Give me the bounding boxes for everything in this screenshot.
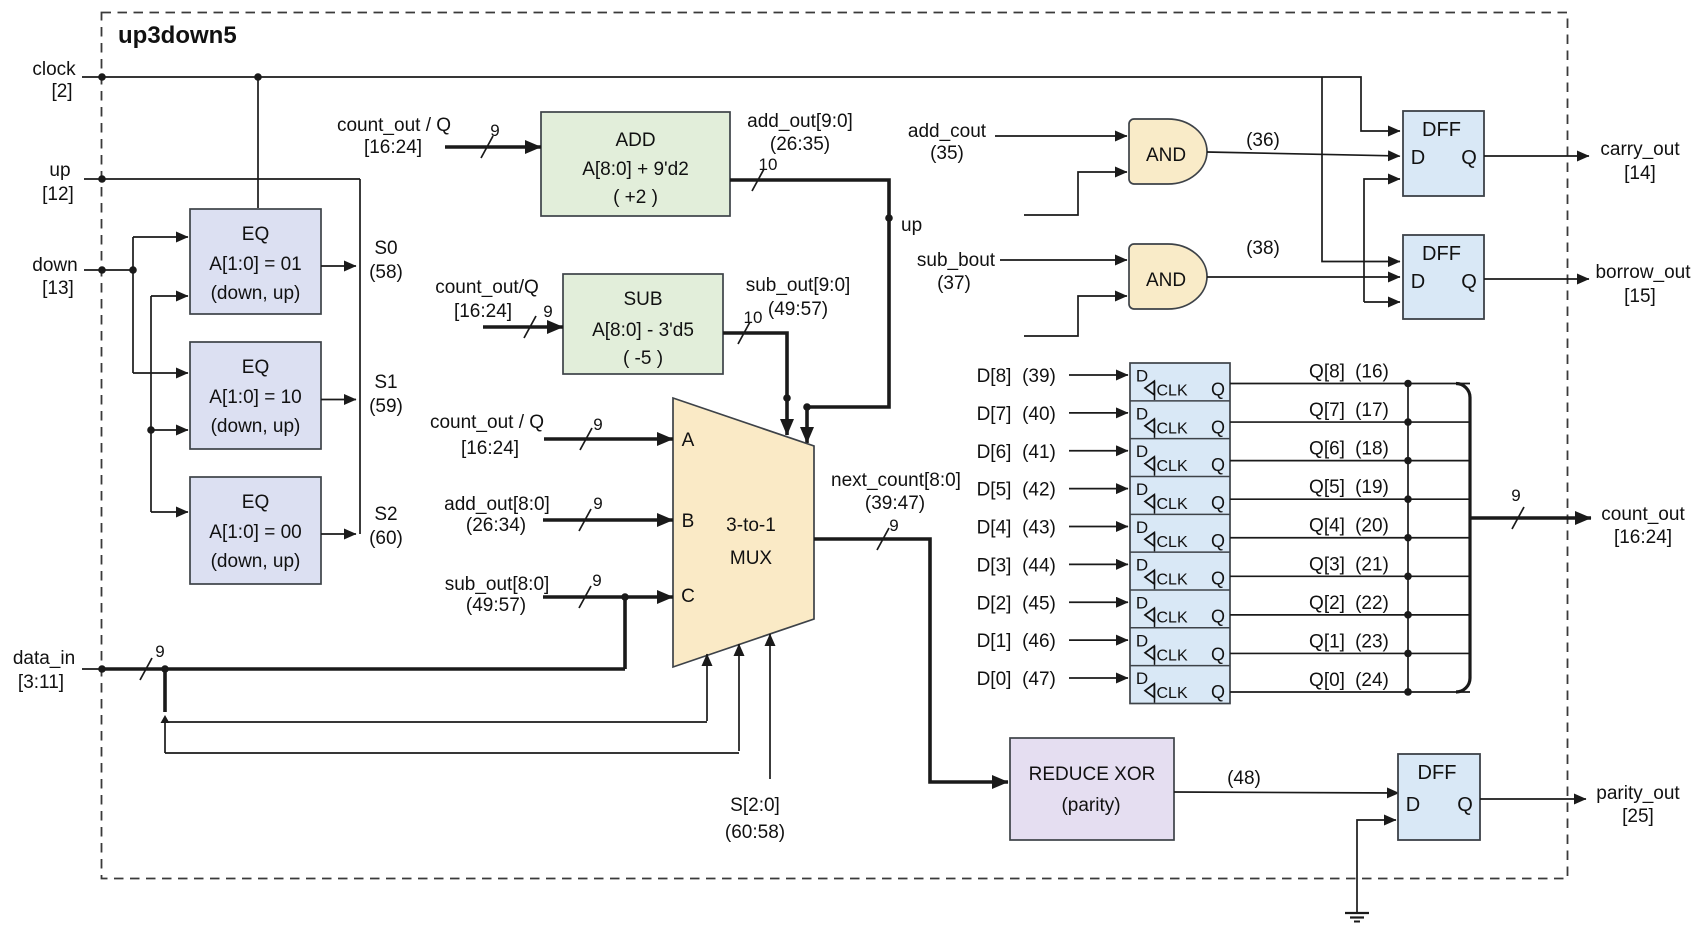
- svg-text:9: 9: [593, 494, 602, 513]
- svg-text:EQ: EQ: [242, 357, 269, 378]
- svg-text:A[1:0] = 01: A[1:0] = 01: [209, 254, 301, 275]
- svg-text:EQ: EQ: [242, 492, 269, 513]
- svg-text:add_out[9:0]: add_out[9:0]: [747, 111, 853, 132]
- svg-text:[16:24]: [16:24]: [461, 438, 519, 459]
- svg-text:(47): (47): [1022, 669, 1056, 690]
- svg-text:Q[7]: Q[7]: [1309, 400, 1345, 421]
- svg-text:Q: Q: [1211, 644, 1225, 664]
- svg-text:(35): (35): [930, 143, 964, 164]
- svg-text:sub_bout: sub_bout: [917, 250, 996, 271]
- svg-text:Q[0]: Q[0]: [1309, 670, 1345, 691]
- svg-text:Q: Q: [1211, 606, 1225, 626]
- svg-text:Q: Q: [1461, 147, 1477, 169]
- svg-text:(44): (44): [1022, 555, 1056, 576]
- svg-text:A[1:0] = 00: A[1:0] = 00: [209, 522, 301, 543]
- svg-text:D: D: [1136, 442, 1148, 461]
- svg-text:add_out[8:0]: add_out[8:0]: [444, 494, 550, 515]
- svg-text:Q[5]: Q[5]: [1309, 477, 1345, 498]
- svg-text:9: 9: [1511, 486, 1520, 505]
- svg-text:3-to-1: 3-to-1: [726, 515, 776, 536]
- svg-text:[16:24]: [16:24]: [454, 301, 512, 322]
- svg-text:(26:35): (26:35): [770, 134, 830, 155]
- svg-text:D: D: [1136, 593, 1148, 612]
- svg-text:(down, up): (down, up): [211, 283, 301, 304]
- svg-text:D: D: [1411, 271, 1425, 293]
- svg-text:D: D: [1411, 147, 1425, 169]
- svg-text:CLK: CLK: [1157, 420, 1188, 437]
- svg-text:CLK: CLK: [1157, 609, 1188, 626]
- svg-text:down: down: [32, 255, 77, 276]
- svg-text:borrow_out: borrow_out: [1595, 262, 1691, 283]
- svg-text:MUX: MUX: [730, 548, 773, 569]
- svg-text:(60): (60): [369, 528, 403, 549]
- svg-text:ADD: ADD: [615, 130, 655, 151]
- svg-text:[14]: [14]: [1624, 163, 1656, 184]
- svg-text:9: 9: [889, 516, 898, 535]
- svg-text:next_count[8:0]: next_count[8:0]: [831, 470, 961, 491]
- svg-text:CLK: CLK: [1157, 572, 1188, 589]
- svg-text:Q[3]: Q[3]: [1309, 554, 1345, 575]
- svg-text:(17): (17): [1355, 400, 1389, 421]
- svg-text:(26:34): (26:34): [466, 515, 526, 536]
- svg-text:D: D: [1136, 518, 1148, 537]
- svg-text:9: 9: [592, 571, 601, 590]
- svg-text:A[8:0] - 3'd5: A[8:0] - 3'd5: [592, 320, 694, 341]
- svg-text:(43): (43): [1022, 518, 1056, 539]
- svg-text:(36): (36): [1246, 130, 1280, 151]
- svg-text:[15]: [15]: [1624, 286, 1656, 307]
- svg-text:(down, up): (down, up): [211, 416, 301, 437]
- svg-text:(46): (46): [1022, 631, 1056, 652]
- svg-text:Q: Q: [1211, 569, 1225, 589]
- svg-text:D: D: [1136, 556, 1148, 575]
- svg-text:parity_out: parity_out: [1596, 783, 1680, 804]
- svg-text:add_cout: add_cout: [908, 121, 987, 142]
- svg-text:[16:24]: [16:24]: [1614, 527, 1672, 548]
- svg-text:( +2 ): ( +2 ): [613, 187, 658, 208]
- svg-text:Q[6]: Q[6]: [1309, 439, 1345, 460]
- svg-text:up3down5: up3down5: [118, 22, 237, 49]
- svg-text:(23): (23): [1355, 631, 1389, 652]
- svg-text:[3:11]: [3:11]: [18, 672, 64, 693]
- svg-text:[25]: [25]: [1622, 806, 1654, 827]
- svg-text:9: 9: [490, 121, 499, 140]
- svg-text:sub_out[9:0]: sub_out[9:0]: [746, 275, 851, 296]
- svg-text:D: D: [1136, 631, 1148, 650]
- svg-text:Q[1]: Q[1]: [1309, 631, 1345, 652]
- svg-text:Q: Q: [1457, 794, 1473, 816]
- svg-text:Q: Q: [1211, 455, 1225, 475]
- svg-text:D[4]: D[4]: [977, 518, 1012, 539]
- svg-text:AND: AND: [1146, 270, 1186, 291]
- svg-text:AND: AND: [1146, 145, 1186, 166]
- svg-text:Q[2]: Q[2]: [1309, 593, 1345, 614]
- svg-text:(58): (58): [369, 262, 403, 283]
- svg-text:[16:24]: [16:24]: [364, 137, 422, 158]
- svg-text:[12]: [12]: [42, 184, 74, 205]
- svg-text:S[2:0]: S[2:0]: [730, 795, 780, 816]
- svg-text:CLK: CLK: [1157, 685, 1188, 702]
- svg-text:D[2]: D[2]: [977, 593, 1012, 614]
- svg-text:count_out/Q: count_out/Q: [435, 277, 539, 298]
- svg-text:(22): (22): [1355, 593, 1389, 614]
- svg-text:Q: Q: [1211, 682, 1225, 702]
- svg-text:(41): (41): [1022, 442, 1056, 463]
- svg-text:(37): (37): [937, 273, 971, 294]
- svg-text:Q[4]: Q[4]: [1309, 516, 1345, 537]
- svg-text:(39): (39): [1022, 366, 1056, 387]
- svg-text:( -5 ): ( -5 ): [623, 348, 663, 369]
- svg-text:9: 9: [593, 415, 602, 434]
- svg-text:count_out / Q: count_out / Q: [430, 412, 544, 433]
- svg-text:sub_out[8:0]: sub_out[8:0]: [445, 574, 550, 595]
- svg-text:10: 10: [759, 155, 778, 174]
- svg-text:(40): (40): [1022, 404, 1056, 425]
- svg-text:(45): (45): [1022, 593, 1056, 614]
- svg-text:count_out: count_out: [1601, 504, 1685, 525]
- svg-text:DFF: DFF: [1418, 762, 1457, 784]
- svg-text:D: D: [1136, 367, 1148, 386]
- svg-text:up: up: [901, 215, 922, 236]
- svg-text:A: A: [682, 430, 695, 451]
- svg-text:(60:58): (60:58): [725, 822, 785, 843]
- svg-text:(18): (18): [1355, 439, 1389, 460]
- svg-text:D[5]: D[5]: [977, 480, 1012, 501]
- svg-text:D[3]: D[3]: [977, 555, 1012, 576]
- svg-text:DFF: DFF: [1422, 243, 1461, 265]
- svg-text:D[6]: D[6]: [977, 442, 1012, 463]
- svg-text:A[1:0] = 10: A[1:0] = 10: [209, 387, 301, 408]
- svg-text:(59): (59): [369, 396, 403, 417]
- svg-text:S1: S1: [374, 372, 397, 393]
- svg-text:D: D: [1136, 404, 1148, 423]
- svg-text:CLK: CLK: [1157, 496, 1188, 513]
- svg-text:(16): (16): [1355, 362, 1389, 383]
- svg-text:(20): (20): [1355, 516, 1389, 537]
- svg-text:D[7]: D[7]: [977, 404, 1012, 425]
- svg-text:(49:57): (49:57): [768, 299, 828, 320]
- svg-text:(39:47): (39:47): [865, 493, 925, 514]
- svg-text:clock: clock: [32, 59, 76, 80]
- svg-text:Q: Q: [1211, 380, 1225, 400]
- svg-text:(24): (24): [1355, 670, 1389, 691]
- svg-text:(down, up): (down, up): [211, 551, 301, 572]
- svg-text:D[0]: D[0]: [977, 669, 1012, 690]
- svg-text:Q: Q: [1461, 271, 1477, 293]
- svg-text:(49:57): (49:57): [466, 595, 526, 616]
- svg-text:EQ: EQ: [242, 224, 269, 245]
- svg-text:count_out / Q: count_out / Q: [337, 115, 451, 136]
- svg-text:9: 9: [155, 642, 164, 661]
- svg-text:(42): (42): [1022, 480, 1056, 501]
- svg-text:D: D: [1136, 669, 1148, 688]
- svg-text:D: D: [1406, 794, 1420, 816]
- svg-text:S2: S2: [374, 504, 397, 525]
- svg-text:REDUCE XOR: REDUCE XOR: [1029, 764, 1156, 785]
- svg-text:10: 10: [744, 308, 763, 327]
- svg-text:up: up: [49, 160, 70, 181]
- svg-text:CLK: CLK: [1157, 647, 1188, 664]
- svg-text:B: B: [682, 511, 695, 532]
- svg-text:D[1]: D[1]: [977, 631, 1012, 652]
- svg-text:[13]: [13]: [42, 278, 74, 299]
- svg-text:DFF: DFF: [1422, 119, 1461, 141]
- svg-text:[2]: [2]: [51, 81, 72, 102]
- svg-text:carry_out: carry_out: [1600, 139, 1680, 160]
- svg-text:(19): (19): [1355, 477, 1389, 498]
- svg-text:Q: Q: [1211, 531, 1225, 551]
- svg-text:Q[8]: Q[8]: [1309, 362, 1345, 383]
- svg-text:(38): (38): [1246, 238, 1280, 259]
- svg-text:C: C: [681, 586, 695, 607]
- svg-text:D: D: [1136, 480, 1148, 499]
- svg-text:Q: Q: [1211, 493, 1225, 513]
- svg-text:A[8:0] + 9'd2: A[8:0] + 9'd2: [582, 159, 689, 180]
- svg-text:CLK: CLK: [1157, 458, 1188, 475]
- svg-text:D[8]: D[8]: [977, 366, 1012, 387]
- svg-text:CLK: CLK: [1157, 534, 1188, 551]
- svg-text:SUB: SUB: [623, 289, 662, 310]
- svg-text:S0: S0: [374, 238, 397, 259]
- svg-text:(parity): (parity): [1061, 795, 1120, 816]
- svg-text:(48): (48): [1227, 768, 1261, 789]
- svg-text:data_in: data_in: [13, 648, 75, 669]
- svg-text:(21): (21): [1355, 554, 1389, 575]
- svg-text:Q: Q: [1211, 417, 1225, 437]
- svg-text:9: 9: [543, 302, 552, 321]
- svg-text:CLK: CLK: [1157, 383, 1188, 400]
